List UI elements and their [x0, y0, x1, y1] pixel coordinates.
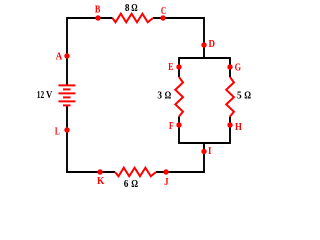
node B	[95, 15, 100, 20]
node K	[97, 169, 102, 174]
wire box right upper stub (corner through G to 5-ohm resistor)	[229, 57, 231, 77]
svg-text:C: C	[161, 5, 166, 17]
wire top-left segment (A corner to B/resistor)	[67, 17, 113, 19]
svg-text:A: A	[56, 50, 63, 62]
wire box left upper stub (corner through E to 3-ohm resistor)	[178, 57, 180, 77]
svg-text:L: L	[55, 126, 60, 138]
node I	[201, 149, 206, 154]
svg-text:B: B	[95, 3, 101, 15]
svg-text:Ω: Ω	[131, 3, 137, 14]
svg-text:8: 8	[125, 3, 130, 14]
node J	[163, 169, 168, 174]
resistor R3 5 ohm (right vertical zigzag)	[226, 77, 234, 117]
wire left vertical lower (battery bottom through L to bottom corner)	[66, 105, 68, 172]
node G	[227, 64, 232, 69]
wire box bottom bar (F corner to H corner)	[179, 142, 230, 144]
svg-text:12: 12	[37, 90, 44, 101]
wire left vertical upper (corner through A to battery top)	[66, 17, 68, 85]
wire right vertical (top-right corner through D to box top)	[203, 17, 205, 58]
wire box top bar (E corner to G corner)	[179, 57, 230, 59]
wire bottom-right segment (resistor through J to center corner)	[156, 171, 205, 173]
resistor R4 6 ohm (bottom zigzag)	[115, 168, 156, 177]
svg-text:Ω: Ω	[131, 179, 138, 190]
node L	[64, 127, 69, 132]
wire box right lower stub (5-ohm resistor through H to corner)	[229, 117, 231, 144]
node H	[227, 122, 232, 127]
svg-text:6: 6	[124, 179, 129, 190]
svg-text:5: 5	[237, 91, 242, 102]
resistor R1 8 ohm (top zigzag)	[113, 14, 154, 23]
svg-text:J: J	[164, 176, 169, 188]
svg-text:D: D	[209, 38, 216, 50]
wire bottom-left segment (corner through K to resistor)	[66, 171, 115, 173]
resistor R2 3 ohm (left vertical zigzag)	[175, 77, 183, 117]
svg-text:Ω: Ω	[165, 91, 172, 102]
wire center vertical (box bottom through I to bottom wire)	[203, 143, 205, 172]
node F	[176, 122, 181, 127]
node D	[201, 42, 206, 47]
battery B1 12 V (3 cells, red plates)	[59, 85, 76, 105]
svg-text:E: E	[168, 61, 173, 73]
node A	[64, 53, 69, 58]
wire box left lower stub (3-ohm resistor through F to corner)	[178, 117, 180, 144]
svg-text:I: I	[208, 145, 211, 157]
svg-text:K: K	[97, 175, 105, 187]
svg-text:Ω: Ω	[244, 91, 251, 102]
svg-text:V: V	[46, 90, 53, 101]
node C	[160, 15, 165, 20]
node E	[176, 64, 181, 69]
wire top-right segment (resistor to top-right corner)	[153, 17, 204, 19]
svg-text:F: F	[169, 120, 174, 132]
svg-text:H: H	[235, 121, 242, 133]
svg-text:3: 3	[157, 91, 162, 102]
svg-text:G: G	[235, 61, 242, 73]
